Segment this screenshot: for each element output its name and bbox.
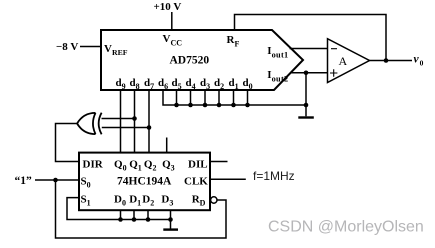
wire d0 stub	[247, 90, 249, 105]
node Iout2 junction	[304, 71, 309, 76]
node d5	[174, 103, 179, 108]
node d2	[217, 103, 222, 108]
op-amp A	[328, 39, 370, 83]
wire d1 stub	[233, 90, 235, 105]
wire D3 to ground	[170, 210, 172, 228]
wire op-amp output to vO	[370, 60, 413, 62]
wire d7 to Q2	[148, 90, 150, 153]
svg-text:A: A	[339, 54, 348, 68]
wire Q3 stub	[166, 138, 168, 153]
ground at Iout2	[298, 116, 314, 118]
node XOR input on d8	[132, 116, 137, 121]
wire DIL stub	[210, 161, 228, 163]
wire D0 stub	[120, 210, 122, 219]
node D3	[168, 217, 173, 222]
node d4	[188, 103, 193, 108]
svg-text:AD7520: AD7520	[170, 55, 210, 67]
wire Iout1 to op-amp inverting input	[290, 48, 328, 50]
svg-text:−8 V: −8 V	[56, 41, 78, 53]
node D2	[146, 217, 151, 222]
wire d3 stub	[204, 90, 206, 105]
svg-text:v: v	[414, 54, 420, 66]
wire Iout2 down to ground	[305, 73, 307, 117]
node D1	[132, 217, 137, 222]
wire VCC to +10V	[171, 12, 173, 30]
node "1" junction	[53, 178, 58, 183]
wire d9 to Q0	[120, 90, 122, 153]
bubble on RD pin	[211, 197, 217, 203]
wire d2 stub	[218, 90, 220, 105]
wire data bus d6-d0 to ground node	[163, 90, 306, 105]
wire d4 stub	[190, 90, 192, 105]
wire -8V to VREF	[80, 46, 102, 48]
node bus-ground junction	[304, 103, 309, 108]
node d0	[245, 103, 250, 108]
node d1	[231, 103, 236, 108]
svg-text:74HC194A: 74HC194A	[117, 175, 172, 187]
wire XOR lower input from Q2	[102, 127, 149, 129]
ground at D3	[163, 228, 178, 230]
wire d8 to Q1	[134, 90, 136, 153]
wire d5 stub	[176, 90, 178, 105]
svg-text:0: 0	[420, 59, 424, 68]
svg-text:CSDN @MorleyOlsen: CSDN @MorleyOlsen	[268, 219, 424, 236]
wire XOR output to DIR	[56, 124, 80, 162]
wire "1" to S0	[35, 179, 80, 181]
register U2 74HC194A box	[79, 153, 210, 211]
wire Iout2 to op-amp non-inverting input	[291, 72, 328, 74]
svg-text:f=1MHz: f=1MHz	[253, 169, 295, 183]
op-amp minus sign	[331, 48, 337, 50]
svg-text:DIR: DIR	[83, 158, 104, 170]
node XOR input on d7	[147, 125, 152, 130]
wire D2 stub	[147, 210, 149, 219]
svg-text:“1”: “1”	[15, 175, 33, 187]
node d3	[203, 103, 208, 108]
op-amp plus sign	[330, 69, 337, 76]
XOR gate G1	[77, 113, 102, 135]
wire D1 stub	[133, 210, 135, 219]
DAC U1 AD7520 box	[101, 30, 303, 90]
wire S1 loop to D inputs	[67, 198, 171, 220]
svg-text:+10 V: +10 V	[154, 1, 182, 13]
svg-text:CLK: CLK	[184, 175, 208, 187]
node D0	[118, 217, 123, 222]
svg-text:DIL: DIL	[188, 158, 208, 170]
wire XOR upper input from Q1	[102, 118, 135, 120]
wire CLK input	[210, 178, 246, 180]
wire feedback RF to output node	[235, 15, 387, 61]
node output junction	[384, 58, 389, 63]
wire "1" around bottom to RD	[56, 180, 227, 238]
